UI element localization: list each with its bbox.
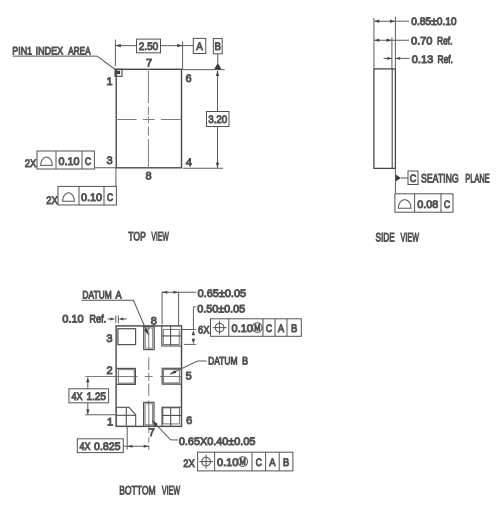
datum B box [213,39,222,54]
svg-text:0.50±0.05: 0.50±0.05 [197,303,245,315]
svg-text:6X: 6X [198,325,210,337]
dimension 0.10 Ref. right arrow [118,318,123,321]
left edge extension down to frame (top view) [115,168,117,187]
datum B triangle [214,63,222,70]
bottom view vertical centerline [148,327,150,450]
dimension 3.20 up arrowhead [216,71,219,76]
PIN1 leader diagonal [97,56,115,69]
feature control frame 2X position 0.10 M C A B [198,452,293,471]
svg-text:0.70: 0.70 [411,36,432,48]
dimension 2.50 line [115,45,136,47]
svg-text:4X: 4X [80,441,92,453]
feature control frame 2X profile 0.10 C (lower) [58,186,116,205]
feature control frame profile 0.08 C (side view) [395,194,453,212]
svg-text:3.20: 3.20 [208,114,227,126]
svg-text:1: 1 [106,76,112,88]
svg-text:0.10: 0.10 [217,457,238,469]
top view horizontal centerline [116,119,181,121]
svg-text:C: C [256,457,262,469]
svg-text:C: C [410,173,417,185]
dimension 3.20 down arrowhead [216,163,219,168]
dimension 4X 0.825 extension line [126,427,128,450]
seating plane line [394,168,396,193]
dimension 0.10 Ref. left arrow [108,318,112,320]
dimension 3.20 value box [207,112,230,127]
dimension 0.85 line [374,20,396,22]
bottom view horizontal centerline [85,376,181,378]
svg-text:5: 5 [186,371,192,383]
DATUM A underline [82,299,134,301]
svg-text:6: 6 [186,415,192,427]
DATUM A leader diagonal [133,300,147,332]
svg-text:DATUM: DATUM [208,356,237,368]
svg-text:SIDE: SIDE [376,231,395,245]
svg-text:Ref.: Ref. [438,54,454,66]
svg-text:M: M [240,458,246,467]
svg-text:AREA: AREA [68,45,91,57]
dimension 0.65 line [162,291,179,293]
svg-text:0.10: 0.10 [232,323,253,335]
dimension 0.65X0.40 arrowhead [152,420,158,426]
svg-text:2.50: 2.50 [139,41,159,53]
svg-text:0.10: 0.10 [81,192,102,204]
DATUM A arrowhead [144,329,149,336]
DATUM B arrowhead [169,370,176,374]
svg-text:TOP: TOP [128,230,146,244]
dimension 0.10 Ref. extension ticks [115,316,117,324]
dimension 4X 0.825 box [77,439,123,453]
pad 2 (bottom view mid-left) [116,368,135,384]
dimension 0.13 line [384,57,392,59]
svg-text:M: M [254,324,260,333]
svg-text:0.825: 0.825 [94,441,121,453]
dimension 2.50 left arrowhead [115,44,120,47]
svg-text:INDEX: INDEX [36,45,64,57]
svg-text:0.65±0.05: 0.65±0.05 [198,288,247,300]
pad 1 (bottom view bottom-left, chamfered) [116,407,135,426]
svg-text:0.85±0.10: 0.85±0.10 [411,16,456,28]
svg-text:3: 3 [106,333,112,345]
svg-text:A: A [196,41,203,53]
svg-text:0.08: 0.08 [417,199,438,211]
svg-text:7: 7 [149,427,155,439]
svg-text:B: B [242,356,248,368]
dimension 2.50 extension line right [182,42,184,70]
svg-text:1: 1 [107,417,113,429]
dimension 4X 1.25 box [69,389,109,403]
svg-text:2X: 2X [46,195,58,207]
dimension 2.50 value box [137,39,161,53]
svg-text:8: 8 [151,316,157,328]
svg-text:B: B [291,323,297,335]
datum C stem [401,177,408,179]
dimension 0.65X0.40 leader [171,439,178,441]
pad 5 (bottom view mid-right) [162,368,181,384]
svg-text:0.13: 0.13 [412,54,433,66]
svg-text:8: 8 [145,171,151,183]
extension line left (0.85) [373,18,375,69]
svg-text:4X: 4X [72,391,84,403]
datum A box [193,38,206,53]
dimension 3.20 line [217,71,219,112]
pad 4 (bottom view top-right) [162,326,182,346]
svg-text:C: C [266,323,272,335]
datum C triangle [396,175,401,182]
svg-text:PLANE: PLANE [465,171,489,185]
svg-text:0.10: 0.10 [62,313,83,325]
dimension 0.65 extension lines [161,292,163,325]
svg-text:C: C [85,156,91,168]
svg-text:3: 3 [106,155,112,167]
extension line middle (0.70) [391,38,393,69]
bottom edge extension to frame (top view) [94,167,116,169]
svg-text:0.65X0.40±0.05: 0.65X0.40±0.05 [179,436,256,448]
datum C box [408,171,418,185]
svg-text:C: C [107,192,113,204]
bottom edge extension line (right of package) [183,167,223,169]
svg-text:4: 4 [186,157,192,169]
dimension 0.50 extension lines [182,329,196,331]
feature control frame 2X profile 0.10 C (upper) [37,151,94,169]
svg-text:7: 7 [146,58,152,70]
PIN1 leader underline [13,55,97,57]
pad 8 (bottom view top-center) [144,327,155,350]
svg-text:Ref.: Ref. [437,36,453,48]
dimension 0.50 arrows [192,330,195,335]
dimension 4X 1.25 bottom extension [85,414,116,416]
svg-text:VIEW: VIEW [401,231,420,245]
side view lid line [391,69,393,168]
svg-text:A: A [269,457,276,469]
svg-text:SEATING: SEATING [421,171,459,185]
svg-text:B: B [214,41,221,53]
svg-text:2X: 2X [183,458,195,470]
pad 3 (bottom view top-left) [118,329,136,345]
extension line right (0.85) [394,17,396,69]
bottom view package outline [116,326,181,427]
dimension 0.50 bracket [193,306,196,308]
dimension 2.50 extension line left [114,40,116,67]
svg-text:B: B [283,457,289,469]
top edge extension line (right of package) [183,69,225,71]
dimension 2.50 right arrowhead [177,44,182,47]
top view vertical centerline [147,70,149,167]
dimension 4X 1.25 line [87,378,89,389]
datum B stem [217,54,219,64]
svg-text:Ref.: Ref. [89,313,106,325]
side view body outline [374,69,396,168]
svg-text:VIEW: VIEW [162,484,181,498]
pin 1 index dot [117,71,120,74]
svg-text:VIEW: VIEW [151,230,169,244]
svg-text:A: A [278,323,285,335]
pad 7 (bottom view bottom-center) [144,402,154,426]
svg-text:BOTTOM: BOTTOM [119,484,155,498]
feature control frame 6X position 0.10 M C A B [211,319,302,337]
dimension 4X 0.825 line [123,445,149,447]
DATUM B leader [198,360,207,362]
svg-text:2: 2 [106,365,112,377]
svg-text:2X: 2X [25,158,37,170]
svg-text:0.10: 0.10 [59,156,80,168]
svg-text:C: C [444,199,450,211]
pin 1 index box [115,69,122,76]
top view package outline [116,69,181,168]
svg-text:6: 6 [185,73,191,85]
svg-text:PIN1: PIN1 [12,45,32,57]
pad 6 (bottom view bottom-right) [162,407,182,426]
dimension 0.70 line [374,39,392,41]
svg-text:1.25: 1.25 [87,391,107,403]
